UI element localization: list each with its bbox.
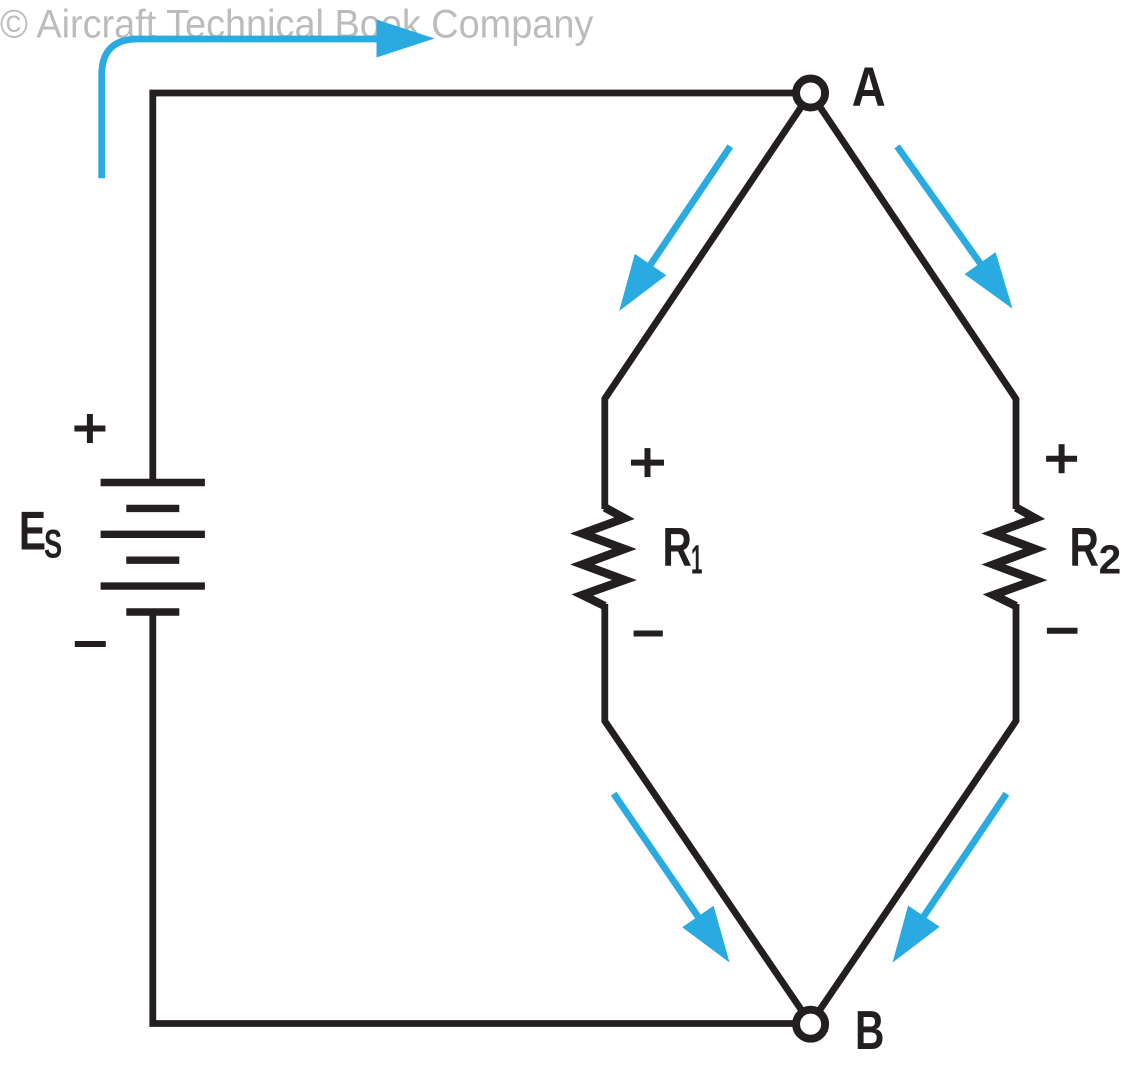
- current arrow: branch 1 down from A: [619, 146, 730, 311]
- svg-text:A: A: [852, 55, 886, 118]
- battery Es: [101, 483, 205, 613]
- label R2: [1070, 517, 1122, 582]
- R1 - polarity: [634, 631, 663, 637]
- svg-text:B: B: [855, 1000, 884, 1061]
- svg-text:S: S: [44, 522, 62, 566]
- wire: branch 1 lower (R1 down to node B): [605, 604, 811, 1024]
- svg-text:R: R: [663, 517, 692, 578]
- current arrow: branch 2 into B: [893, 794, 1007, 963]
- R2 + polarity: [1046, 444, 1077, 473]
- battery - terminal label: [75, 641, 106, 647]
- resistor R2: [994, 508, 1036, 607]
- node A: [796, 79, 825, 108]
- label R1: [663, 517, 703, 582]
- label Es: [19, 501, 62, 567]
- current arrow from source (blue loop, up from battery + then right): [102, 20, 435, 179]
- wire: branch 2 lower (R2 down to node B): [811, 604, 1016, 1024]
- R2 - polarity: [1047, 628, 1078, 634]
- wire: branch 2 upper (node A down-right to R2): [811, 93, 1016, 509]
- current arrow: branch 1 into B: [614, 794, 730, 963]
- node B: [796, 1010, 825, 1039]
- svg-text:1: 1: [691, 537, 702, 583]
- wire: branch 1 upper (node A down-left to R1): [605, 93, 811, 509]
- R1 + polarity: [631, 448, 664, 477]
- battery + terminal label: [74, 414, 105, 443]
- wire: left/bottom return (battery - down and right to node B): [153, 612, 796, 1024]
- svg-text:2: 2: [1099, 536, 1122, 582]
- current arrow: branch 2 down from A: [897, 146, 1012, 308]
- resistor R1: [582, 508, 624, 607]
- svg-text:R: R: [1070, 517, 1099, 578]
- wire: top (from + terminal corner to node A): [153, 93, 796, 483]
- svg-text:E: E: [19, 501, 46, 562]
